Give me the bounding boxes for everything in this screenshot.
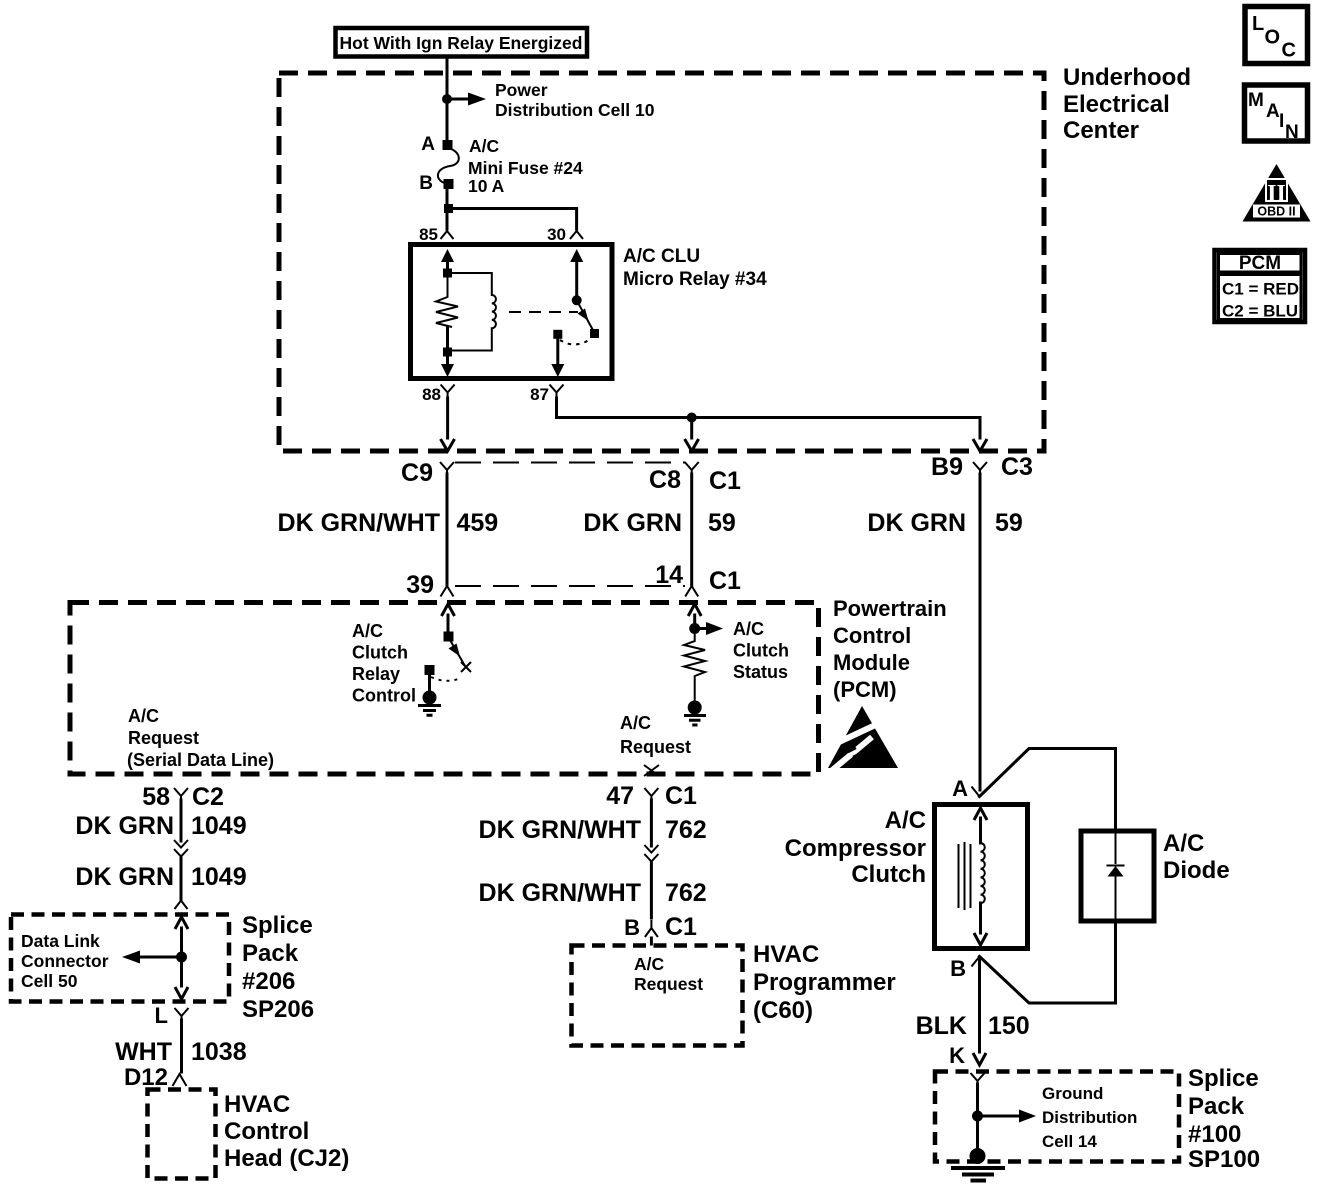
- wire: fuse B down to split node: [446, 189, 449, 229]
- svg-text:Request: Request: [634, 974, 703, 994]
- svg-text:Pack: Pack: [242, 940, 299, 967]
- svg-text:Clutch: Clutch: [733, 641, 789, 661]
- svg-text:Cell 14: Cell 14: [1042, 1132, 1097, 1151]
- LOC badge: [1245, 7, 1308, 64]
- svg-text:Cell 50: Cell 50: [21, 971, 78, 991]
- svg-text:WHT: WHT: [115, 1038, 172, 1066]
- wire: split across to pin 30: [447, 209, 577, 230]
- wire: pin 87 across to B9 drop: [557, 398, 981, 438]
- connector pin 85 (arms down): [419, 225, 453, 244]
- wire: pin 88 down to C9 with border arrow: [441, 398, 455, 451]
- svg-text:47: 47: [606, 782, 634, 810]
- label: A/C Request (inside programmer): [634, 954, 703, 994]
- wire DK GRN 1049 (upper): [75, 800, 246, 841]
- svg-text:PCM: PCM: [1239, 253, 1281, 274]
- svg-text:Splice: Splice: [1188, 1065, 1259, 1092]
- relay node: coil top: [443, 269, 452, 278]
- label: Data Link Connector Cell 50: [21, 931, 109, 991]
- svg-text:C1: C1: [709, 567, 741, 595]
- diode symbol: [1107, 831, 1125, 921]
- connector pin 87 (Y arms up): [530, 385, 563, 405]
- svg-text:B: B: [624, 915, 640, 940]
- wire: relay pin 88 exit with down arrow: [441, 356, 454, 377]
- PCM: status arrow right: [695, 622, 723, 635]
- wire DK GRN 59 (middle): [583, 474, 735, 585]
- label: Powertrain Control Module (PCM): [833, 596, 947, 702]
- svg-text:M: M: [1248, 90, 1264, 111]
- clutch: core lines: [959, 842, 971, 910]
- ESD sensitive symbol: [822, 706, 898, 772]
- X marker: A/C request crossing PCM border: [644, 765, 659, 776]
- svg-text:B9: B9: [931, 453, 963, 481]
- svg-text:DK GRN/WHT: DK GRN/WHT: [479, 879, 641, 907]
- connector L (Y arms up): [155, 1003, 189, 1028]
- svg-text:#206: #206: [242, 968, 295, 995]
- label: A/C Request (right): [620, 713, 691, 757]
- border arrow at B9: [973, 439, 987, 451]
- svg-text:1038: 1038: [191, 1038, 247, 1066]
- arrow into ground splice pack: [949, 1043, 986, 1068]
- svg-text:Power: Power: [495, 80, 548, 100]
- svg-text:C1: C1: [665, 782, 697, 810]
- svg-text:DK GRN: DK GRN: [75, 863, 174, 891]
- svg-text:B: B: [950, 956, 966, 981]
- relay switch arm end contact (square): [590, 329, 599, 338]
- svg-text:Request: Request: [620, 737, 691, 757]
- fuse F24 terminal A (square): [443, 140, 453, 150]
- relay box: A/C CLU Micro Relay #34: [411, 245, 613, 379]
- splice: entry arrow: [175, 917, 188, 957]
- relay switch arm with arrowhead: [577, 300, 594, 332]
- svg-text:Splice: Splice: [242, 912, 313, 939]
- label: Splice Pack #100 SP100: [1188, 1065, 1260, 1173]
- svg-text:762: 762: [665, 879, 707, 907]
- svg-text:Clutch: Clutch: [851, 861, 926, 888]
- Underhood Electrical Center dashed enclosure: [279, 73, 1044, 451]
- wire: junction down to C8 with border arrow: [685, 418, 699, 452]
- wire WHT 1038: [115, 1020, 247, 1072]
- PCM: dotted linkage: [431, 677, 461, 681]
- svg-text:C1: C1: [709, 467, 741, 495]
- svg-text:N: N: [1285, 122, 1299, 143]
- HVAC Programmer dashed box: [572, 946, 743, 1046]
- label: A/C Clutch Status: [733, 619, 789, 682]
- label: HVAC Programmer (C60): [753, 941, 896, 1024]
- svg-text:Head (CJ2): Head (CJ2): [224, 1145, 349, 1172]
- PCM dashed enclosure: [70, 603, 819, 775]
- svg-text:Control: Control: [224, 1118, 309, 1145]
- PCM: clutch status sense arrow: [688, 604, 701, 624]
- svg-text:Module: Module: [833, 650, 910, 675]
- dashed actuation line coil to switch: [509, 311, 578, 313]
- svg-text:88: 88: [422, 385, 441, 404]
- dashed connector face line 39 to 14: [455, 585, 685, 587]
- ground symbol G100: [951, 1148, 1005, 1181]
- PCM: pull-up resistor: [684, 634, 705, 701]
- svg-text:A/C: A/C: [1163, 830, 1204, 857]
- wire DK GRN/WHT 459: [278, 474, 499, 585]
- dotted travel arc: [560, 340, 589, 345]
- svg-text:Underhood: Underhood: [1063, 64, 1191, 91]
- connector 14 / C1 (arms down): [655, 561, 741, 597]
- node: splice SP100: [972, 1111, 983, 1122]
- PCM: node at status tap: [689, 623, 700, 634]
- Splice Pack 206 dashed box: [11, 915, 229, 1002]
- label: A/C Mini Fuse #24 10 A: [468, 136, 583, 196]
- svg-text:B: B: [419, 173, 433, 194]
- relay switch common arrow from pin 30: [570, 249, 583, 297]
- svg-text:(PCM): (PCM): [833, 677, 897, 702]
- svg-text:C8: C8: [649, 466, 681, 494]
- svg-text:D12: D12: [124, 1064, 168, 1091]
- relay node: coil bottom: [443, 348, 452, 357]
- label: Ground Distribution Cell 14: [1042, 1084, 1137, 1151]
- wire DK GRN/WHT 762 (lower): [479, 863, 707, 918]
- svg-text:(Serial Data Line): (Serial Data Line): [127, 750, 274, 770]
- svg-text:I: I: [1279, 111, 1284, 132]
- relay coil input arrow from pin 85: [441, 249, 454, 269]
- svg-text:Clutch: Clutch: [352, 643, 408, 663]
- svg-text:Programmer: Programmer: [753, 969, 896, 996]
- clutch: entry arrow up: [974, 808, 987, 843]
- svg-text:OBD II: OBD II: [1257, 205, 1295, 219]
- label: A/C Request (left, serial data line): [127, 706, 274, 770]
- svg-text:Distribution Cell 10: Distribution Cell 10: [495, 100, 655, 120]
- svg-text:C2: C2: [192, 783, 224, 811]
- node: junction to C8 drop: [687, 413, 697, 423]
- splice: arrow left to data link connector: [122, 951, 182, 964]
- svg-text:Pack: Pack: [1188, 1093, 1245, 1120]
- svg-text:K: K: [949, 1043, 965, 1068]
- svg-text:150: 150: [988, 1012, 1030, 1040]
- svg-text:Status: Status: [733, 662, 788, 682]
- svg-text:II: II: [1267, 181, 1286, 207]
- svg-text:459: 459: [457, 509, 499, 537]
- PCM connector color legend: [1215, 250, 1306, 322]
- connector pin 88 (Y arms up): [422, 385, 455, 405]
- PCM: driver lower contact square: [425, 665, 435, 675]
- connector C9 (Y arms up): [401, 459, 454, 487]
- in-line connector (chevron pair): [644, 845, 658, 865]
- connector K (Y arms up): [971, 1073, 985, 1086]
- svg-text:A/C: A/C: [733, 619, 764, 639]
- svg-text:C1: C1: [665, 913, 697, 941]
- splice: exit arrow down: [175, 957, 188, 999]
- relay coil resistor zigzag: [436, 273, 458, 327]
- fuse: A/C Mini Fuse #24 10A S-curve: [438, 148, 459, 184]
- connector B9 / C3 (Y arms up): [931, 453, 1033, 481]
- node: splice SP206: [176, 952, 187, 963]
- svg-text:59: 59: [708, 509, 736, 537]
- svg-text:C3: C3: [1001, 453, 1033, 481]
- svg-text:Powertrain: Powertrain: [833, 596, 947, 621]
- svg-text:C9: C9: [401, 459, 433, 487]
- wire: tap to Power Distribution Cell 10 arrow: [447, 93, 486, 106]
- svg-text:39: 39: [406, 571, 434, 599]
- label: A/C Clutch Relay Control: [352, 621, 416, 706]
- A/C Diode box: [1081, 831, 1154, 921]
- dashed connector face line C9 to C8: [455, 462, 685, 464]
- svg-text:L: L: [1252, 13, 1264, 35]
- label: A/C Compressor Clutch: [785, 807, 926, 888]
- PCM: ground at clutch status: [684, 701, 706, 726]
- connector B / C1 (arms down): [624, 913, 697, 941]
- svg-text:A: A: [1266, 101, 1280, 122]
- svg-text:Control: Control: [833, 623, 911, 648]
- svg-text:58: 58: [142, 783, 170, 811]
- label: Splice Pack #206 SP206: [242, 912, 314, 1023]
- svg-text:A: A: [952, 776, 968, 801]
- wire: ignition feed from label box down to fuse A: [446, 57, 449, 142]
- wire: splice to ground: [976, 1084, 979, 1152]
- label box: Hot With Ign Relay Energized: [336, 28, 588, 57]
- svg-text:Relay: Relay: [352, 664, 400, 684]
- connector 39 (arms down): [406, 571, 453, 599]
- wire BLK 150: [916, 957, 1030, 1045]
- label: Underhood Electrical Center: [1063, 64, 1191, 144]
- svg-text:Request: Request: [128, 728, 199, 748]
- connector D12 (arms down): [124, 1064, 187, 1091]
- label: A/C CLU Micro Relay #34: [623, 246, 767, 290]
- svg-text:A/C CLU: A/C CLU: [623, 246, 700, 267]
- wire: coil bottom continues: [446, 327, 449, 352]
- wire: branch to A/C diode (bottom): [980, 920, 1116, 1003]
- svg-text:Control: Control: [352, 686, 416, 706]
- label: Power Distribution Cell 10: [495, 80, 655, 120]
- svg-text:A/C: A/C: [634, 954, 665, 974]
- svg-text:87: 87: [530, 385, 549, 404]
- svg-text:DK GRN/WHT: DK GRN/WHT: [278, 509, 440, 537]
- svg-text:Micro Relay #34: Micro Relay #34: [623, 269, 767, 290]
- svg-text:Connector: Connector: [21, 951, 109, 971]
- label: A/C Diode: [1163, 830, 1230, 884]
- A/C Compressor Clutch box: [935, 805, 1028, 949]
- svg-text:C1 = RED: C1 = RED: [1222, 280, 1299, 299]
- svg-text:Diode: Diode: [1163, 857, 1230, 884]
- svg-text:Compressor: Compressor: [785, 835, 926, 862]
- svg-text:Ground: Ground: [1042, 1084, 1103, 1103]
- svg-text:C2 = BLU: C2 = BLU: [1222, 302, 1298, 321]
- OBD II badge: [1243, 164, 1311, 222]
- svg-text:Mini Fuse #24: Mini Fuse #24: [468, 158, 583, 178]
- node: power distribution tap: [442, 94, 452, 104]
- svg-text:Center: Center: [1063, 117, 1139, 144]
- connector 58 / C2 (Y arms up): [142, 783, 224, 811]
- wire DK GRN 1049 (lower): [75, 858, 246, 900]
- splice: arrow right to ground distribution: [978, 1110, 1037, 1123]
- connector 47 / C1 (Y arms up): [606, 782, 697, 810]
- svg-text:DK GRN/WHT: DK GRN/WHT: [479, 816, 641, 844]
- svg-text:DK GRN: DK GRN: [75, 812, 174, 840]
- svg-text:Distribution: Distribution: [1042, 1108, 1137, 1127]
- wire DK GRN/WHT 762 (upper): [479, 800, 707, 846]
- svg-text:DK GRN: DK GRN: [867, 509, 966, 537]
- svg-text:BLK: BLK: [916, 1012, 967, 1040]
- svg-text:1049: 1049: [191, 863, 247, 891]
- relay contact to pin 87 (square): [553, 330, 562, 339]
- connector into splice pack (arms down): [175, 901, 188, 910]
- svg-text:A/C: A/C: [620, 713, 651, 733]
- svg-text:A/C: A/C: [352, 621, 383, 641]
- svg-text:#100: #100: [1188, 1121, 1241, 1148]
- svg-text:762: 762: [665, 816, 707, 844]
- svg-text:Electrical: Electrical: [1063, 91, 1170, 118]
- in-line connector (chevron pair): [174, 840, 188, 860]
- MAIN badge: [1245, 85, 1308, 143]
- svg-text:85: 85: [419, 225, 438, 244]
- node: split to relay pins 85 and 30: [444, 204, 453, 213]
- svg-text:HVAC: HVAC: [753, 941, 819, 968]
- Ground Distribution dashed box: [935, 1072, 1179, 1162]
- svg-text:A/C: A/C: [885, 807, 926, 834]
- svg-text:DK GRN: DK GRN: [583, 509, 682, 537]
- label: HVAC Control Head (CJ2): [224, 1091, 349, 1172]
- svg-text:L: L: [155, 1003, 168, 1028]
- svg-text:A: A: [421, 134, 435, 155]
- PCM: driver switch arm with arrowhead to X: [448, 637, 471, 673]
- svg-text:1049: 1049: [191, 812, 247, 840]
- fuse F24 terminal B (square): [444, 179, 454, 189]
- clutch: coil winding: [981, 843, 985, 903]
- svg-text:Data Link: Data Link: [21, 931, 100, 951]
- svg-text:14: 14: [655, 561, 683, 589]
- wire stub into HVAC programmer: [650, 938, 653, 944]
- connector A at compressor clutch (arms up): [952, 776, 979, 801]
- wire: branch to A/C diode (top): [980, 749, 1116, 832]
- clutch: exit arrow down: [974, 903, 987, 945]
- PCM: driver switch contact square: [444, 632, 454, 642]
- HVAC Control Head dashed box: [148, 1090, 216, 1179]
- connector C8 / C1 (Y arms up): [649, 462, 741, 495]
- svg-text:A/C: A/C: [469, 136, 500, 156]
- svg-text:10 A: 10 A: [468, 176, 505, 196]
- svg-text:HVAC: HVAC: [224, 1091, 290, 1118]
- PCM: A/C clutch relay control driver arrow: [442, 604, 455, 632]
- svg-text:59: 59: [995, 509, 1023, 537]
- svg-text:C: C: [1282, 40, 1296, 62]
- svg-text:(C60): (C60): [753, 997, 813, 1024]
- svg-text:Hot With Ign Relay Energized: Hot With Ign Relay Energized: [340, 33, 583, 53]
- relay switch pivot: [572, 295, 582, 305]
- connector B at compressor clutch (arms down): [950, 956, 979, 981]
- wire: relay pin 87 exit with down arrow: [551, 339, 564, 377]
- wire DK GRN 59 (right, down to compressor clutch): [867, 474, 1022, 790]
- svg-text:SP100: SP100: [1188, 1146, 1260, 1173]
- svg-text:A/C: A/C: [128, 706, 159, 726]
- connector pin 30 (arms down): [547, 225, 583, 244]
- svg-text:30: 30: [547, 225, 566, 244]
- svg-text:SP206: SP206: [242, 996, 314, 1023]
- svg-text:O: O: [1265, 27, 1281, 49]
- relay coil winding loop: [448, 273, 496, 351]
- PCM: ground at relay control: [418, 675, 441, 715]
